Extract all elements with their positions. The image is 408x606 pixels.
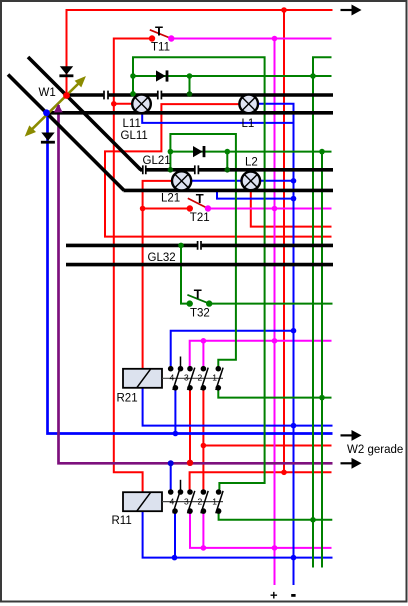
track: diverging route diagonal 2 [8, 75, 124, 191]
relay R11 contact levers [173, 491, 223, 513]
node green GL21 row tap [225, 149, 231, 155]
arrow: olive turnout actuation double arrow [26, 77, 85, 136]
node magenta R21 contact2 [201, 338, 207, 344]
svg-text:GL11: GL11 [121, 130, 148, 142]
node green GL21 rail contact [225, 167, 231, 173]
switch T32 contacts [187, 300, 193, 306]
node green GL11 row bus [310, 73, 316, 79]
relay R11 contact stub [180, 480, 182, 490]
svg-text:T32: T32 [190, 308, 210, 320]
svg-text:L2: L2 [245, 156, 258, 168]
node magenta T21 bus [272, 206, 278, 212]
wire: red L1 lamp feed loop to right exit [105, 104, 332, 237]
wire: red T21 feed branch [143, 208, 187, 210]
insulation break ticks GL32 [198, 241, 201, 250]
node green R11 row bus [310, 517, 316, 523]
relay R21 coil box [123, 369, 162, 388]
node magenta R11 contact2 [201, 545, 207, 551]
node red on purple row [187, 460, 193, 466]
node blue GL21 tap [291, 196, 297, 202]
wire: green R21 contact1 bottom row to exit [218, 388, 331, 398]
wire: green GL11 loop, right bus, to R11 contact1 top [133, 57, 265, 489]
svg-text:GL21: GL21 [143, 155, 171, 167]
label - terminal [291, 594, 295, 597]
wire: green GL32 contact down to T32 [181, 245, 187, 303]
node W1 red [63, 92, 70, 99]
wire: red L21 feed, bus down to R21 coil [143, 181, 173, 369]
track: straight bottom rail [47, 111, 334, 115]
lamp L1 [239, 95, 258, 114]
lamp L2 [242, 172, 261, 191]
switch T21 contacts [187, 205, 193, 211]
wire: blue GL21 rail tap to bus [217, 190, 294, 198]
switch T11 contacts [149, 35, 155, 41]
track: GL11/main straight top rail with insulation breaks [67, 93, 334, 97]
node red contact2 row [201, 443, 207, 449]
wire: magenta R11 contact3/2 bottoms row to exit [190, 511, 332, 548]
relay R21 linkage [162, 377, 223, 379]
node W1 blue [43, 109, 50, 116]
node red T21 branch [140, 206, 146, 212]
relay R11 contact dots top [168, 489, 222, 495]
wire: green R11 contact1 bottom row to exit [219, 511, 333, 520]
node red top bus [281, 7, 287, 13]
lamp L11 [132, 95, 151, 114]
wire: red row y=472 to exit and R11 contact3 top [190, 472, 332, 489]
wire: green rail tap at x=227.3 [226, 152, 228, 170]
wire: green T32 output to exit [212, 303, 333, 305]
wire: red W1 feed from node W1 up and to right exit [67, 10, 333, 96]
svg-text:4: 4 [170, 497, 175, 507]
wire: green GL11 diode row to exit [133, 75, 332, 77]
node green GL21 rail contact left [168, 167, 174, 173]
diode D1 on red W1 feed [59, 66, 73, 77]
node red L11 feed [111, 101, 117, 107]
node red bus R11 row [281, 470, 287, 476]
wire: blue L1 to minus bus down to - terminal [258, 104, 293, 585]
track: diverging route diagonal 1 [28, 57, 141, 170]
lamp L21 [172, 171, 191, 190]
svg-text:W1: W1 [39, 87, 56, 99]
node blue bus R11 row [291, 555, 297, 561]
node magenta T11 bus [272, 36, 278, 42]
svg-text:L21: L21 [161, 192, 180, 204]
node green GL21 row left [168, 149, 174, 155]
node green GL11 row tap [187, 73, 193, 79]
wire: blue R11 contact4 NC top up to purple row [170, 463, 172, 492]
node green GL11 row left [130, 73, 136, 79]
node magenta bus R11 row [272, 545, 278, 551]
svg-text:T11: T11 [151, 42, 170, 54]
svg-text:R11: R11 [112, 515, 132, 527]
wire: blue W1 bus down and W2 row to exit [48, 113, 333, 434]
svg-text:L11: L11 [123, 118, 141, 130]
wire: red R21 contact3 bottom down to purple row [189, 388, 191, 463]
node magenta bus R21 row [272, 338, 278, 344]
svg-text:2: 2 [198, 372, 203, 382]
arrow: W2 gerade purple row exit [341, 459, 361, 468]
relay R11 contact dots bottom [172, 508, 221, 514]
node blue R11 coil row contact4 [172, 555, 178, 561]
wire: red bus from top feed down to R11 row [283, 10, 285, 472]
wire: green exit stub y=57 and bus x=313 [313, 57, 332, 567]
relay R21 contact dots bottom [173, 385, 222, 391]
relay R11 contact numbers [170, 497, 218, 507]
svg-text:4: 4 [170, 372, 175, 382]
diode D2 on blue W1 bus [41, 133, 55, 144]
svg-text:3: 3 [184, 497, 189, 507]
wire: blue R21 contact4 NC top to bus [171, 331, 294, 369]
wire: green GL21 loop, bus 236, to R21 contact1 top [170, 134, 236, 369]
relay R21 contact numbers [170, 372, 218, 382]
node green R21 row bus [319, 395, 325, 401]
svg-text:1: 1 [212, 497, 217, 507]
wire: blue R21 coil return row to exit [143, 388, 333, 426]
svg-text:R21: R21 [117, 392, 138, 404]
arrow: purple turnout coil arrowhead [54, 104, 63, 113]
wire: blue R11 contact4 common bottom down [174, 511, 176, 558]
svg-text:3: 3 [184, 372, 189, 382]
wire: green bus x=322 [321, 152, 323, 568]
node green GL21 row bus [319, 149, 325, 155]
track: GL21 bottom rail [124, 189, 334, 193]
node blue L2 return [291, 178, 297, 184]
svg-text:2: 2 [198, 497, 203, 507]
diode D3 on green GL11 row [156, 70, 168, 81]
wire: blue L2 to bus [260, 180, 294, 182]
wire: blue L11 return [142, 113, 293, 123]
insulation break ticks rail 1 [104, 91, 161, 100]
svg-text:+: + [270, 588, 278, 603]
wire: purple W1 coil bus down and W2 row to exit [59, 105, 333, 463]
switch T11 lever [150, 30, 172, 39]
wire: red R21 contact2 bottom down, row to exit, down to R11 contact2 [202, 388, 204, 490]
track: GL32 top rail with insulation break [66, 244, 333, 248]
wire: red L11 lamp feed stub [114, 103, 133, 105]
relay R21 contact dots top [168, 366, 221, 372]
relay R21 contact levers [173, 368, 223, 390]
wire: magenta plus bus down to + terminal [274, 39, 276, 586]
switch T21 lever [188, 198, 208, 208]
switch T32 lever [187, 295, 209, 304]
svg-text:T: T [155, 23, 163, 38]
relay R11 linkage [162, 501, 223, 503]
wire: blue R11 coil return row to exit [143, 511, 333, 558]
wire: red L2 bottom to right exit [251, 190, 332, 227]
svg-text:T: T [194, 287, 202, 302]
svg-text:GL32: GL32 [148, 252, 176, 264]
insulation break ticks GL21 [143, 165, 199, 174]
wire: blue R21 contact4 common bottom down [174, 388, 176, 434]
node blue on purple row [168, 460, 174, 466]
arrow: W2 gerade blue row exit [341, 431, 361, 440]
svg-text:T: T [196, 191, 204, 206]
wire: blue L21 to L2 link [191, 180, 241, 182]
relay R11 coil box [123, 492, 162, 511]
wire: magenta T21 output to right exit [208, 208, 332, 210]
relay R21 contact stub [180, 357, 182, 367]
track: GL21 top rail with insulation breaks [140, 168, 333, 172]
node blue R21 coil row [291, 423, 297, 429]
wire: magenta T11 output to right exit [171, 38, 331, 40]
node blue R21 NC row [291, 328, 297, 334]
svg-text:W2 gerade: W2 gerade [347, 444, 403, 456]
node green GL32 rail contact [178, 243, 184, 249]
wire: red T11 feed, down left bus to R11 coil [114, 39, 152, 493]
diode D4 on green GL21 row [193, 146, 205, 157]
arrow: top right exit [341, 5, 361, 14]
node green rail contact x=189.5 [187, 91, 193, 97]
node green GL11 rail contact [130, 91, 136, 97]
svg-text:T21: T21 [190, 212, 210, 224]
track: GL32 bottom rail [66, 263, 333, 267]
wire: magenta R21 contact3/2 top row [190, 341, 332, 369]
wire: green rail tap at x=189.5 [189, 76, 191, 94]
svg-text:L1: L1 [242, 118, 255, 130]
node blue W2 row contact4 [173, 431, 179, 437]
svg-text:1: 1 [212, 372, 217, 382]
wire: green GL21 diode row to exit [170, 151, 331, 153]
